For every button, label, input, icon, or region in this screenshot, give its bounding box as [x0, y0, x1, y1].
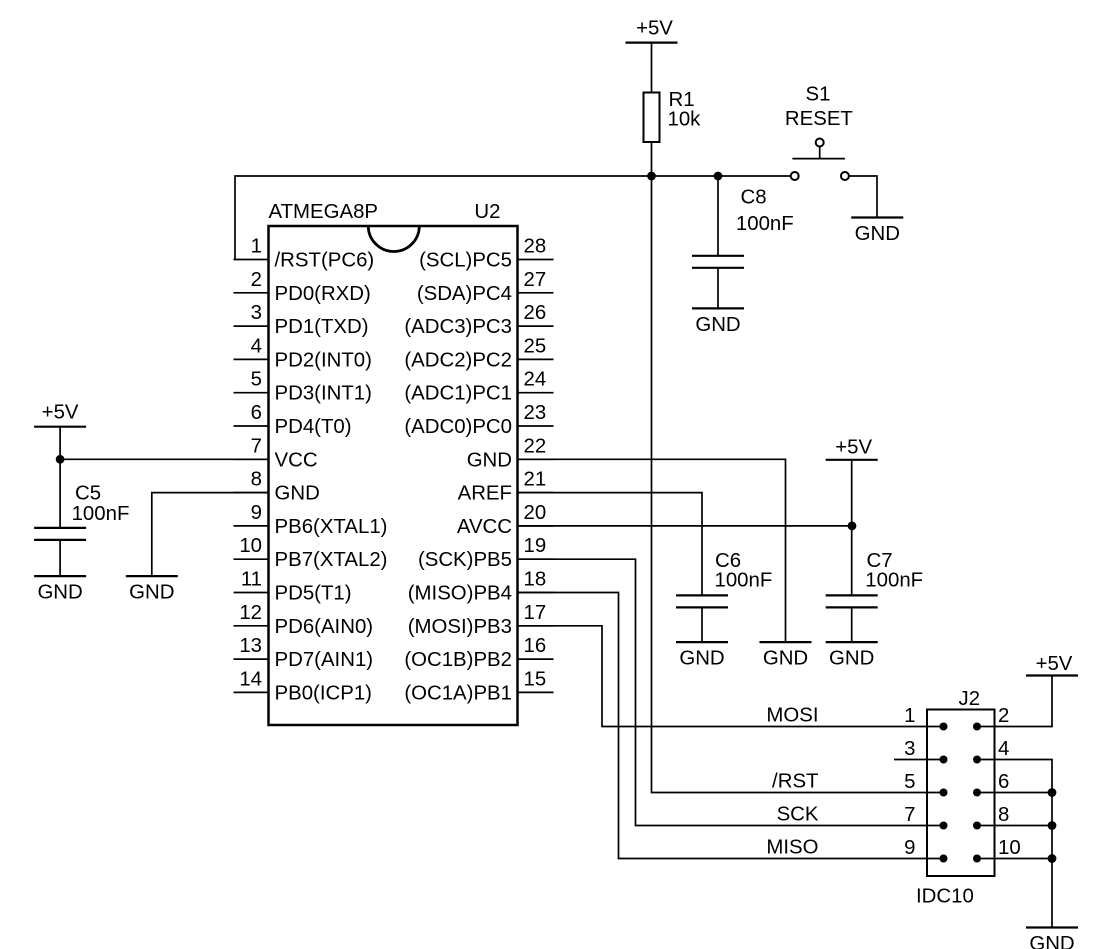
svg-text:4: 4	[998, 738, 1009, 760]
svg-text:AVCC: AVCC	[457, 516, 512, 538]
svg-text:100nF: 100nF	[865, 570, 923, 592]
svg-text:PD3(INT1): PD3(INT1)	[275, 383, 372, 405]
svg-text:RESET: RESET	[785, 108, 853, 130]
svg-text:C8: C8	[741, 187, 767, 209]
svg-text:13: 13	[239, 635, 262, 657]
svg-text:15: 15	[524, 668, 547, 690]
svg-text:9: 9	[904, 837, 915, 859]
svg-text:10: 10	[239, 535, 262, 557]
svg-text:GND: GND	[695, 314, 740, 336]
svg-text:1: 1	[904, 705, 915, 727]
svg-text:GND: GND	[855, 223, 900, 245]
svg-text:10: 10	[998, 837, 1021, 859]
svg-text:23: 23	[524, 402, 547, 424]
svg-text:U2: U2	[474, 201, 500, 223]
svg-text:PD1(TXD): PD1(TXD)	[275, 316, 369, 338]
svg-text:6: 6	[251, 402, 262, 424]
svg-text:VCC: VCC	[275, 449, 318, 471]
svg-text:4: 4	[251, 335, 262, 357]
svg-text:22: 22	[524, 435, 547, 457]
svg-text:/RST(PC6): /RST(PC6)	[275, 250, 375, 272]
svg-text:3: 3	[904, 738, 915, 760]
svg-text:+5V: +5V	[42, 402, 79, 424]
svg-text:19: 19	[524, 535, 547, 557]
svg-text:GND: GND	[829, 648, 874, 670]
svg-text:PB0(ICP1): PB0(ICP1)	[275, 682, 372, 704]
svg-text:SCK: SCK	[777, 804, 819, 826]
svg-text:100nF: 100nF	[72, 503, 130, 525]
svg-text:GND: GND	[37, 582, 82, 604]
svg-text:C7: C7	[867, 550, 893, 572]
svg-text:GND: GND	[679, 648, 724, 670]
svg-text:(MISO)PB4: (MISO)PB4	[408, 583, 512, 605]
svg-text:(SCK)PB5: (SCK)PB5	[418, 549, 512, 571]
svg-text:10k: 10k	[668, 108, 702, 130]
svg-text:8: 8	[998, 804, 1009, 826]
svg-text:20: 20	[524, 502, 547, 524]
svg-text:GND: GND	[129, 582, 174, 604]
svg-text:J2: J2	[959, 688, 981, 710]
svg-text:(OC1B)PB2: (OC1B)PB2	[404, 649, 512, 671]
svg-text:(ADC3)PC3: (ADC3)PC3	[404, 316, 512, 338]
svg-text:6: 6	[998, 771, 1009, 793]
svg-text:PD4(T0): PD4(T0)	[275, 416, 352, 438]
svg-text:GND: GND	[763, 648, 808, 670]
svg-text:26: 26	[524, 302, 547, 324]
svg-text:+5V: +5V	[835, 436, 872, 458]
svg-text:PB7(XTAL2): PB7(XTAL2)	[275, 549, 388, 571]
svg-text:(ADC0)PC0: (ADC0)PC0	[404, 416, 512, 438]
svg-text:5: 5	[904, 771, 915, 793]
svg-text:16: 16	[524, 635, 547, 657]
svg-text:PD0(RXD): PD0(RXD)	[275, 283, 371, 305]
svg-text:C6: C6	[715, 550, 741, 572]
svg-text:2: 2	[998, 705, 1009, 727]
svg-text:(ADC1)PC1: (ADC1)PC1	[404, 383, 512, 405]
svg-text:AREF: AREF	[458, 483, 512, 505]
svg-text:MOSI: MOSI	[766, 705, 818, 727]
svg-text:18: 18	[524, 569, 547, 591]
svg-text:1: 1	[251, 236, 262, 258]
svg-text:14: 14	[239, 668, 262, 690]
svg-text:PD2(INT0): PD2(INT0)	[275, 349, 372, 371]
svg-text:PD5(T1): PD5(T1)	[275, 583, 352, 605]
svg-text:12: 12	[239, 602, 262, 624]
svg-text:8: 8	[251, 469, 262, 491]
svg-text:(ADC2)PC2: (ADC2)PC2	[404, 349, 512, 371]
svg-text:100nF: 100nF	[715, 570, 773, 592]
svg-text:ATMEGA8P: ATMEGA8P	[269, 201, 379, 223]
svg-text:21: 21	[524, 469, 547, 491]
svg-text:+5V: +5V	[636, 18, 673, 40]
svg-text:PD7(AIN1): PD7(AIN1)	[275, 649, 374, 671]
svg-text:IDC10: IDC10	[916, 886, 974, 908]
svg-text:5: 5	[251, 369, 262, 391]
svg-text:7: 7	[251, 435, 262, 457]
svg-text:(SDA)PC4: (SDA)PC4	[417, 283, 512, 305]
svg-text:27: 27	[524, 269, 547, 291]
svg-text:24: 24	[524, 369, 547, 391]
svg-text:11: 11	[241, 569, 262, 591]
svg-text:C5: C5	[75, 483, 101, 505]
svg-text:3: 3	[251, 302, 262, 324]
svg-text:GND: GND	[275, 483, 320, 505]
svg-text:17: 17	[524, 602, 547, 624]
svg-text:GND: GND	[1029, 933, 1074, 949]
svg-text:/RST: /RST	[772, 771, 818, 793]
svg-text:S1: S1	[806, 83, 831, 105]
svg-text:7: 7	[904, 804, 915, 826]
svg-text:100nF: 100nF	[736, 213, 794, 235]
svg-text:(OC1A)PB1: (OC1A)PB1	[404, 682, 512, 704]
svg-text:25: 25	[524, 335, 547, 357]
svg-text:MISO: MISO	[766, 837, 818, 859]
svg-text:2: 2	[251, 269, 262, 291]
svg-text:PB6(XTAL1): PB6(XTAL1)	[275, 516, 388, 538]
svg-text:PD6(AIN0): PD6(AIN0)	[275, 616, 374, 638]
svg-text:28: 28	[524, 236, 547, 258]
svg-text:+5V: +5V	[1036, 653, 1073, 675]
svg-text:(SCL)PC5: (SCL)PC5	[419, 250, 512, 272]
svg-text:9: 9	[251, 502, 262, 524]
svg-text:GND: GND	[467, 449, 512, 471]
svg-text:(MOSI)PB3: (MOSI)PB3	[408, 616, 512, 638]
